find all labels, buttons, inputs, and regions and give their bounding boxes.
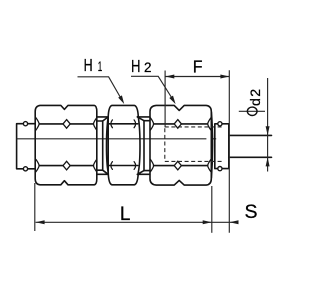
svg-text:1: 1 xyxy=(98,59,103,74)
phi d2 arrow top xyxy=(266,126,270,135)
phi d2 dimension line xyxy=(267,78,269,172)
H1 arrowhead xyxy=(118,95,124,104)
right nut diamond top xyxy=(174,120,181,129)
left nut diamond bottom xyxy=(63,161,70,170)
F arrow right xyxy=(220,75,229,79)
left collar washer xyxy=(97,117,108,174)
end cap circle bottom xyxy=(218,167,222,171)
left nut chamfer lens left face xyxy=(36,118,39,172)
F extension line right long xyxy=(228,70,230,233)
right nut lens right face xyxy=(208,118,211,172)
H2 arrowhead xyxy=(169,96,175,105)
F extension line left xyxy=(164,71,166,128)
L extension line left xyxy=(34,183,36,231)
end cap circle top xyxy=(218,122,222,126)
label phi d2 rotated: phi drawn as circle+bar xyxy=(239,110,265,112)
svg-text:S: S xyxy=(245,201,258,223)
right collar washer xyxy=(137,117,149,174)
H2 leader line xyxy=(131,76,174,101)
svg-text:H: H xyxy=(84,55,93,75)
svg-text:H: H xyxy=(131,56,141,76)
L extension line right xyxy=(211,186,213,233)
left tube circle bottom xyxy=(23,167,27,171)
F dimension line xyxy=(165,76,229,78)
svg-text:d2: d2 xyxy=(248,88,264,106)
F arrow left xyxy=(165,75,174,79)
hidden tube bore dashed xyxy=(165,127,224,161)
svg-text:F: F xyxy=(193,56,203,76)
right nut right face bulge arc xyxy=(211,112,212,178)
left nut diamond top xyxy=(63,120,70,129)
right nut silhouette xyxy=(150,105,211,185)
L S dimension line xyxy=(36,221,239,223)
L arrow right S arrow left xyxy=(203,220,212,224)
left nut chamfer lens right face xyxy=(93,118,96,172)
end cap xyxy=(215,124,229,169)
centerline xyxy=(17,138,217,140)
body hex silhouette xyxy=(107,105,141,184)
svg-text:L: L xyxy=(120,204,131,225)
left tube circle top xyxy=(23,122,27,126)
left nut facet lines xyxy=(39,124,93,166)
S arrow right xyxy=(230,220,239,224)
right nut lens left face xyxy=(150,118,153,172)
tube stub right xyxy=(229,135,272,157)
L arrow left xyxy=(36,220,45,224)
left nut silhouette xyxy=(35,105,97,184)
phi d2 arrow bottom xyxy=(266,157,270,166)
right nut diamond bottom xyxy=(174,161,181,170)
right nut facet lines xyxy=(154,124,208,166)
svg-text:2: 2 xyxy=(144,60,152,75)
left tube stub rectangle xyxy=(17,124,36,169)
body hex facet lines xyxy=(109,124,138,166)
H1 leader line xyxy=(78,77,123,102)
body hex lens curves xyxy=(111,120,136,169)
